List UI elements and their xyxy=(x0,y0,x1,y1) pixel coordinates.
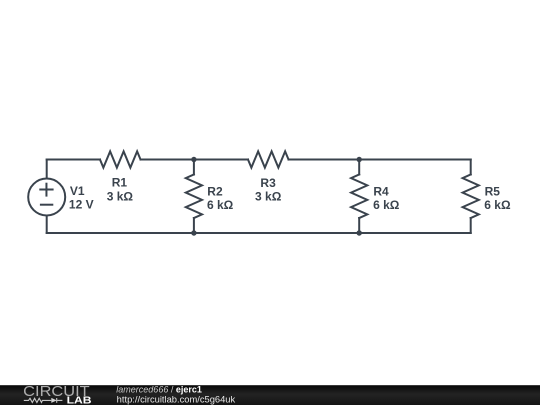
svg-text:R1: R1 xyxy=(112,176,128,190)
svg-text:R3: R3 xyxy=(260,176,276,190)
svg-text:http://circuitlab.com/c5g64uk: http://circuitlab.com/c5g64uk xyxy=(117,395,236,405)
svg-text:3 kΩ: 3 kΩ xyxy=(255,190,282,204)
svg-text:6 kΩ: 6 kΩ xyxy=(207,198,234,212)
svg-text:lamerced666 / ejerc1: lamerced666 / ejerc1 xyxy=(116,384,202,394)
svg-text:R2: R2 xyxy=(207,184,223,198)
svg-text:R4: R4 xyxy=(373,184,389,198)
svg-text:12 V: 12 V xyxy=(69,198,94,212)
svg-text:6 kΩ: 6 kΩ xyxy=(373,198,400,212)
svg-text:V1: V1 xyxy=(70,184,85,198)
svg-text:LAB: LAB xyxy=(67,396,92,405)
svg-text:3 kΩ: 3 kΩ xyxy=(107,189,134,203)
svg-text:R5: R5 xyxy=(485,184,501,198)
svg-text:6 kΩ: 6 kΩ xyxy=(484,198,511,212)
